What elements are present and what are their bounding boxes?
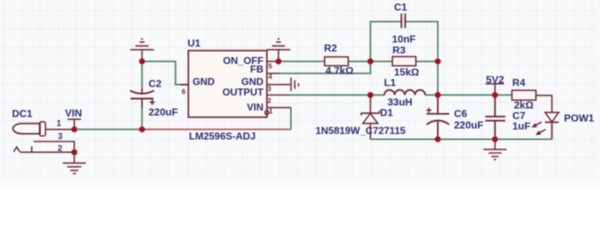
svg-text:U1: U1 <box>188 38 201 49</box>
ground output <box>484 139 507 159</box>
svg-text:DC1: DC1 <box>12 109 33 120</box>
svg-text:C1: C1 <box>394 3 407 14</box>
ground DC1 <box>63 152 86 173</box>
svg-text:C7: C7 <box>512 111 525 122</box>
svg-text:VIN: VIN <box>65 109 82 120</box>
DC1 pin 1 <box>46 128 75 130</box>
pin 6 stub <box>180 84 189 86</box>
wire FB run <box>279 61 370 73</box>
pin 3 stub <box>267 84 290 86</box>
wire R4 to LED maroon <box>536 95 552 112</box>
pin name texts <box>193 56 264 113</box>
capacitor C6 <box>427 95 450 139</box>
capacitor C1 <box>401 14 405 29</box>
pin 1 stub <box>267 107 291 109</box>
LED POW1 <box>545 112 559 122</box>
svg-text:1uF: 1uF <box>512 122 530 133</box>
wire R2 to junction A <box>348 60 370 62</box>
svg-text:FB: FB <box>250 65 263 76</box>
svg-text:10nF: 10nF <box>392 35 416 46</box>
wire junction B down to out rail <box>437 61 439 95</box>
wire gnd node to pin6 <box>142 61 188 84</box>
svg-text:GND: GND <box>193 77 215 88</box>
svg-text:OUTPUT: OUTPUT <box>222 88 263 99</box>
diode D1 <box>369 95 371 113</box>
pin 2 stub <box>267 94 290 96</box>
DC1 pin 3 <box>34 142 75 153</box>
svg-text:1: 1 <box>269 109 273 116</box>
inductor L1 <box>384 90 425 95</box>
rotated ground pin3 <box>291 78 299 92</box>
svg-text:3: 3 <box>58 132 63 141</box>
svg-text:2kΩ: 2kΩ <box>514 101 534 112</box>
svg-text:3: 3 <box>267 86 271 93</box>
svg-text:D1: D1 <box>380 108 393 119</box>
svg-text:C6: C6 <box>454 109 467 120</box>
wire R3 to junction B <box>416 60 438 62</box>
ground above pin5 <box>267 39 291 62</box>
IC U1 box <box>188 51 267 118</box>
pin 5 stub <box>267 60 279 62</box>
maroon symbol group <box>13 14 559 174</box>
svg-text:R4: R4 <box>512 78 525 89</box>
svg-text:2: 2 <box>267 98 271 105</box>
wire VIN rail DC1 to C2 <box>74 128 142 130</box>
wire pin1 riser <box>290 108 292 130</box>
wire OUTPUT rail <box>290 94 385 96</box>
svg-text:5: 5 <box>268 63 272 70</box>
connector DC1 body <box>13 124 40 134</box>
svg-text:VIN: VIN <box>247 102 264 113</box>
svg-text:L1: L1 <box>384 78 396 89</box>
wire C2 column top <box>141 61 143 88</box>
wire C1 loop <box>370 22 437 62</box>
resistor R2 <box>325 57 349 66</box>
svg-text:6: 6 <box>182 89 186 96</box>
pin 1 circle <box>265 111 269 115</box>
wire pin5 to R2 <box>279 60 325 62</box>
svg-text:R2: R2 <box>324 44 337 55</box>
capacitor C7 <box>485 95 505 139</box>
svg-text:C2: C2 <box>149 79 162 90</box>
wire junction A to R3 <box>370 60 392 62</box>
VIN net label underline <box>68 119 81 129</box>
DC1 pin 2 lever <box>14 146 75 152</box>
resistor R3 <box>392 57 416 66</box>
wire C6 node to 5V2 node to R4 <box>438 94 512 96</box>
wire C2 column bottom <box>141 108 143 129</box>
svg-text:LM2596S-ADJ: LM2596S-ADJ <box>189 131 256 142</box>
wire bottom rail <box>370 138 552 140</box>
svg-text:2: 2 <box>58 144 63 153</box>
svg-text:220uF: 220uF <box>149 108 178 119</box>
svg-text:1: 1 <box>57 119 62 128</box>
svg-text:5V2: 5V2 <box>486 75 504 86</box>
svg-text:POW1: POW1 <box>564 114 594 125</box>
net label 5V2 stem <box>485 84 503 95</box>
wires green group <box>74 22 552 140</box>
resistor R4 <box>512 90 536 100</box>
svg-text:1N5819W_C727115: 1N5819W_C727115 <box>316 126 407 137</box>
pin numbers <box>182 63 273 115</box>
LED arrows <box>535 122 545 133</box>
capacitor C2 <box>142 89 155 109</box>
svg-text:15kΩ: 15kΩ <box>394 68 419 79</box>
ground top-left <box>130 39 154 62</box>
svg-text:4.7kΩ: 4.7kΩ <box>326 66 354 77</box>
svg-text:GND: GND <box>241 77 263 88</box>
wire L1 right to C6 node <box>425 94 438 96</box>
svg-text:R3: R3 <box>393 46 406 57</box>
wire VIN red run C2 to pin1 riser <box>142 128 291 130</box>
svg-text:220uF: 220uF <box>454 121 483 132</box>
svg-text:4: 4 <box>268 74 272 81</box>
pin 4 stub <box>267 72 279 74</box>
